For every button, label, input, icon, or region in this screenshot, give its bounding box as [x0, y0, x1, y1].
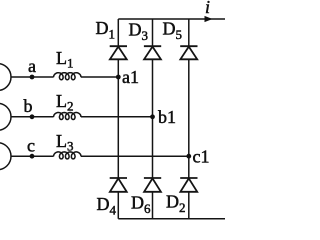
wire row c: coil to node c1 — [81, 155, 189, 157]
svg-text:a1: a1 — [122, 67, 139, 87]
inductor L3 coil — [54, 152, 82, 159]
diode D6 — [144, 178, 161, 192]
svg-text:D4: D4 — [97, 194, 117, 218]
wire: bridge leg 2 vertical (D3/D6) — [152, 19, 154, 219]
svg-text:D2: D2 — [166, 192, 186, 216]
diode D5 — [180, 46, 197, 59]
source V_c circle — [0, 143, 11, 170]
svg-text:D5: D5 — [163, 19, 183, 43]
svg-text:D6: D6 — [131, 193, 151, 217]
inductor L1 coil — [54, 73, 82, 80]
svg-text:D1: D1 — [96, 18, 116, 42]
inductor L2 coil — [54, 113, 82, 120]
wire row b: coil to node b1 — [81, 116, 153, 118]
node b junction dot — [30, 114, 35, 119]
svg-text:b1: b1 — [158, 107, 176, 127]
node a junction dot — [30, 75, 35, 80]
source V_a circle — [0, 64, 11, 91]
svg-text:i: i — [205, 0, 210, 17]
wire: bridge leg 3 vertical (D5/D2) — [188, 19, 190, 219]
svg-text:L1: L1 — [56, 48, 74, 71]
wire row a: source to coil — [11, 76, 54, 78]
svg-text:c1: c1 — [193, 147, 210, 167]
wire: top bus — [118, 18, 225, 20]
diode D1 — [110, 46, 127, 59]
wire row c: source to coil — [11, 155, 54, 157]
node c1 junction dot — [186, 154, 191, 159]
svg-text:D3: D3 — [129, 20, 149, 44]
svg-text:L2: L2 — [56, 91, 74, 114]
svg-text:a: a — [28, 56, 36, 76]
diode D4 — [110, 178, 127, 192]
diode D2 — [180, 178, 197, 192]
wire: bottom bus — [118, 218, 225, 220]
node b1 junction dot — [150, 114, 155, 119]
wire: bridge leg 1 vertical (D1/D4) — [117, 19, 119, 219]
arrowhead current i — [205, 16, 213, 22]
node a1 junction dot — [116, 75, 121, 80]
wire row a: coil to node a1 — [81, 76, 118, 78]
node c junction dot — [30, 154, 35, 159]
svg-text:c: c — [27, 136, 35, 156]
source V_b circle — [0, 103, 11, 130]
svg-text:b: b — [24, 96, 33, 116]
wire row b: source to coil — [11, 116, 54, 118]
diode D3 — [144, 46, 161, 59]
svg-text:L3: L3 — [56, 131, 74, 154]
